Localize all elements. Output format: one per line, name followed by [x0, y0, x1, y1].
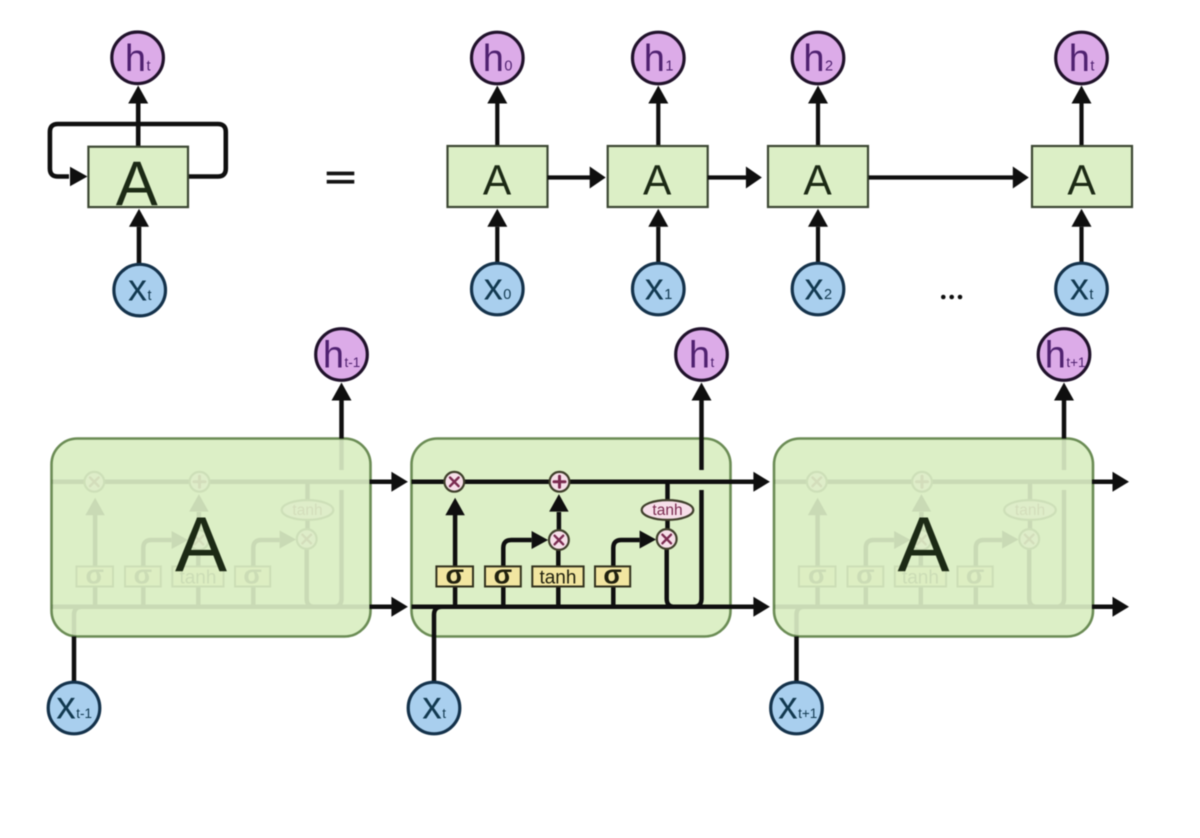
svg-text:1: 1 — [665, 59, 673, 75]
svg-text:t: t — [146, 58, 150, 74]
svg-text:t: t — [442, 706, 446, 721]
svg-text:A: A — [897, 500, 949, 588]
svg-text:σ: σ — [494, 560, 512, 590]
node x_t circle — [1056, 263, 1108, 315]
node x_2 circle — [792, 263, 844, 315]
wire h_t-1 output — [339, 400, 344, 439]
svg-text:t: t — [711, 355, 715, 370]
svg-text:2: 2 — [825, 59, 833, 75]
svg-text:t-1: t-1 — [76, 706, 92, 721]
wire top line to tanh oval — [665, 482, 670, 500]
node x_1 circle — [633, 263, 685, 315]
wire chain arrow — [730, 480, 754, 485]
node x_t circle (rolled) — [114, 264, 166, 316]
svg-text:x: x — [422, 685, 442, 728]
wire forget gate branch — [453, 515, 458, 607]
loop arrowhead into A box — [70, 167, 88, 187]
op multiply x3 (output) — [657, 529, 677, 549]
svg-text:A: A — [483, 158, 512, 205]
wire x input merge curve — [434, 607, 442, 637]
svg-text:tanh: tanh — [539, 568, 576, 589]
node h_t-1 circle (bottom) — [316, 329, 368, 381]
wire chain arrow — [370, 480, 392, 485]
svg-text:A: A — [175, 500, 227, 588]
node h_1 circle — [633, 32, 685, 84]
wire h_t+1 output — [1062, 400, 1067, 439]
svg-text:x: x — [778, 685, 798, 728]
wire chain arrow — [730, 605, 754, 610]
node h_0 circle — [472, 32, 524, 84]
svg-text:x: x — [645, 267, 664, 309]
wire chain arrow — [370, 605, 392, 610]
node h_t+1 circle (bottom) — [1038, 329, 1090, 381]
svg-text:t: t — [148, 288, 152, 304]
op tanh oval — [642, 500, 694, 520]
svg-text:h: h — [323, 335, 344, 377]
wire input gate branch with curve to x2 — [503, 540, 531, 607]
svg-text:0: 0 — [504, 59, 512, 75]
svg-text:h: h — [125, 38, 146, 80]
wire A box to h_t — [136, 104, 141, 147]
wire output gate branch with curve to x3 — [613, 540, 639, 607]
svg-text:A: A — [1067, 158, 1096, 205]
op multiply x2 (input) — [549, 530, 569, 550]
wire x_1 to A box — [656, 227, 660, 264]
equals sign — [327, 172, 355, 176]
gate tanh — [532, 566, 583, 586]
svg-text:2: 2 — [824, 287, 832, 303]
svg-text:t: t — [1090, 59, 1094, 75]
gate sigma 3 — [595, 566, 630, 586]
svg-text:x: x — [1070, 267, 1089, 309]
svg-text:σ: σ — [445, 560, 463, 590]
node A box (rolled RNN) — [88, 147, 188, 207]
node A box unit 0 — [448, 146, 548, 207]
svg-text:x: x — [128, 268, 147, 310]
wire hidden-state bottom line — [412, 605, 731, 610]
wire x_t-1 input — [72, 637, 77, 683]
wire A2 to At (long) — [869, 175, 1013, 179]
LSTM cell t box — [412, 439, 731, 637]
svg-text:A: A — [116, 149, 158, 219]
node x_0 circle — [472, 263, 524, 315]
wire cell-state top line — [412, 480, 731, 485]
svg-text:h: h — [1045, 335, 1066, 377]
node h_t circle (bottom) — [676, 329, 728, 381]
node A box unit 2 — [768, 146, 868, 207]
gate sigma 2 — [485, 566, 521, 586]
node h_t circle — [1056, 32, 1108, 84]
ellipsis dots — [941, 295, 946, 300]
svg-text:σ: σ — [603, 560, 621, 590]
svg-text:x: x — [56, 685, 76, 728]
svg-text:0: 0 — [503, 287, 511, 303]
wire A box to h_1 — [656, 104, 660, 147]
node h_2 circle — [792, 32, 844, 84]
wire A0 to A1 — [548, 175, 591, 179]
LSTM cell t+1 box (faded) — [774, 439, 1093, 637]
node x_t+1 circle (bottom) — [771, 682, 823, 734]
svg-text:h: h — [689, 335, 710, 377]
op plus (cell update) — [550, 472, 570, 492]
gate sigma 1 — [436, 566, 473, 586]
svg-text:t-1: t-1 — [345, 355, 361, 370]
svg-text:h: h — [644, 38, 665, 80]
svg-text:A: A — [803, 158, 832, 205]
wire x2 to plus — [557, 512, 562, 530]
wire A box to h_0 — [495, 104, 499, 147]
wire A box to h_2 — [816, 104, 820, 147]
svg-text:x: x — [484, 267, 503, 309]
node A box unit t — [1032, 146, 1132, 207]
svg-text:A: A — [643, 158, 672, 205]
node h_t circle (rolled) — [112, 32, 164, 84]
svg-text:t: t — [1089, 287, 1093, 303]
wire chain arrow — [1092, 605, 1113, 610]
node x_t-1 circle (bottom) — [48, 682, 100, 734]
wire x_2 to A box — [816, 227, 820, 264]
svg-text:t+1: t+1 — [1066, 355, 1085, 370]
wire x_0 to A box — [495, 227, 499, 264]
wire candidate tanh branch — [556, 550, 561, 607]
svg-text:t+1: t+1 — [798, 706, 817, 721]
wire tanh oval to x3 — [665, 520, 670, 529]
wire x_t input — [432, 637, 437, 683]
wire A box to h_t — [1079, 104, 1083, 147]
wire x_t+1 input — [794, 637, 799, 683]
wire x3 down to bottom line — [667, 549, 675, 607]
wire x_t to A box — [1079, 227, 1083, 264]
wire chain arrow — [1092, 480, 1113, 485]
svg-text:1: 1 — [664, 287, 672, 303]
svg-text:x: x — [804, 267, 823, 309]
op multiply x1 (forget) — [444, 472, 464, 492]
wire A1 to A2 — [708, 175, 747, 179]
wire h_t output — [699, 400, 704, 439]
wire x_t to A box — [137, 227, 142, 264]
LSTM cell t-1 box (faded) — [52, 439, 371, 637]
svg-text:h: h — [1069, 38, 1090, 80]
svg-text:h: h — [483, 38, 504, 80]
svg-text:tanh: tanh — [652, 502, 682, 519]
node A box unit 1 — [608, 146, 708, 207]
node x_t circle (bottom) — [408, 682, 460, 734]
wire h output branch (bridges over top line) — [694, 490, 702, 607]
svg-text:h: h — [803, 38, 824, 80]
loop wire (recurrent feedback) — [50, 124, 226, 177]
